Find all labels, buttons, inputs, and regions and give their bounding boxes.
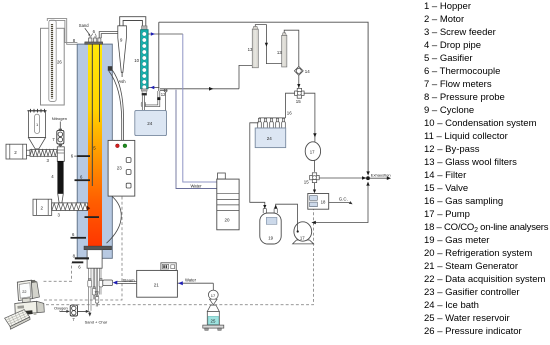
svg-text:14: 14: [305, 69, 310, 74]
wire: cooling water out (lavender) condenser top to refrigerator: [148, 32, 217, 182]
svg-text:21: 21: [154, 282, 160, 287]
drop pipe 4 top connector: [57, 146, 64, 161]
wire: cable controller to lower thermocouple: [107, 196, 122, 243]
computer 22 base unit: [15, 301, 45, 317]
svg-text:13: 13: [248, 47, 253, 52]
motor 2b: [33, 199, 52, 215]
svg-text:16: 16: [287, 110, 292, 115]
svg-text:Sand: Sand: [79, 23, 89, 28]
svg-text:G.C.: G.C.: [339, 196, 348, 201]
thermocouple bar bottom 6: [72, 261, 83, 269]
gasifier 5 wall: [77, 44, 112, 258]
wire: gas line condenser to filters: [160, 65, 252, 90]
svg-text:Water: Water: [191, 184, 203, 189]
wire: nitrogen line to flow meter: [59, 122, 61, 130]
wire: sampling to gas meter: [250, 123, 267, 209]
svg-text:3: 3: [58, 212, 61, 217]
svg-text:Oxygen: Oxygen: [54, 306, 68, 311]
svg-text:15: 15: [304, 180, 309, 185]
wire: cooling water return line: [176, 90, 217, 189]
node: label 6 top thermocouples: [91, 29, 97, 37]
grate at gasifier bottom: [84, 246, 112, 250]
dashed data line: pressure probe to computer: [44, 263, 72, 281]
wire: by-pass down arrow into junction: [366, 171, 369, 175]
svg-text:17: 17: [300, 236, 305, 241]
thermocouple bar y156: [71, 154, 90, 159]
screw feeder 3b: [52, 203, 91, 218]
wire: water line into steam generator: [177, 278, 213, 291]
svg-text:Sand + Char: Sand + Char: [85, 319, 108, 324]
flow meter 7b oxygen: [70, 305, 77, 322]
thermocouple bar y238: [71, 232, 87, 239]
bottom tubes under plenum: [89, 268, 101, 311]
svg-text:6: 6: [93, 29, 96, 34]
svg-text:25: 25: [211, 319, 216, 324]
computer 22 monitor: [17, 280, 39, 303]
dashed data line: analysers to computer: [46, 209, 313, 305]
svg-text:19: 19: [268, 235, 273, 240]
svg-text:Nitrogen: Nitrogen: [52, 116, 67, 121]
svg-text:20: 20: [225, 218, 231, 223]
svg-text:Water: Water: [185, 278, 197, 283]
analyser 18: [308, 194, 329, 210]
svg-text:7: 7: [72, 317, 75, 322]
cyclone 9: [118, 26, 127, 84]
wire: filter2 top to filter 14: [284, 30, 299, 66]
gas meter 19: [260, 204, 298, 244]
wire: pressure tube from indicator to gasifier port 8: [47, 19, 77, 45]
thermocouple rod short: [99, 44, 100, 122]
svg-text:17: 17: [310, 150, 315, 155]
svg-text:7/3: 7/3: [94, 291, 99, 295]
svg-text:24: 24: [267, 136, 273, 141]
wire: cyclone top to condenser: [120, 17, 146, 29]
svg-text:24: 24: [147, 121, 153, 126]
thermocouple rod long: [92, 44, 93, 186]
wire: cable from gasifier to controller: [109, 71, 122, 140]
ice bath 24 left: [135, 110, 167, 135]
valve 15a: [295, 88, 305, 104]
node: exhaustion junction: [366, 176, 370, 180]
liquid collector 11 fittings under condenser: [141, 89, 147, 111]
G.C. arrow: [329, 196, 353, 204]
svg-text:22: 22: [22, 290, 26, 294]
svg-text:7: 7: [52, 137, 55, 142]
motor 2a: [6, 144, 30, 159]
wire: gasifier outlet to cyclone: [99, 32, 118, 38]
wire: valve 15b to exhaustion junction: [319, 176, 366, 180]
svg-text:13: 13: [277, 50, 282, 55]
wire: valve 15a to gas sampling manifold: [286, 93, 295, 118]
filter 14: [294, 67, 310, 76]
drop pipe 4: [51, 161, 63, 203]
thermocouple bar y217: [85, 216, 100, 218]
pump 17 reservoir: [208, 290, 218, 299]
svg-text:10: 10: [134, 58, 139, 63]
pressure indicator 26: [41, 20, 65, 105]
svg-text:17: 17: [211, 293, 216, 298]
sand+char outlet arrow: [85, 311, 108, 324]
node: fitting 12: [161, 89, 167, 97]
wire: condenser side arm with blue arrow: [148, 86, 159, 89]
svg-text:18: 18: [321, 200, 326, 205]
screw feeder 3a: [30, 150, 59, 163]
wire: steam line to gasifier: [113, 278, 137, 285]
svg-text:Steam: Steam: [123, 278, 136, 283]
computer 22 keyboard: [5, 310, 31, 330]
by-pass drain valve (black): [145, 91, 161, 107]
wire: filter1 top to filter2 bottom: [255, 25, 281, 64]
pump 17a circle: [304, 93, 321, 172]
flow meter 7a: [52, 129, 64, 146]
wire: oxygen line to bottom tube: [78, 310, 90, 313]
glass wool filter 13 column 1: [248, 26, 259, 67]
node: cable nub on gasifier wall: [108, 66, 113, 71]
by-pass 12 riser: [158, 22, 160, 91]
svg-text:6: 6: [71, 154, 74, 159]
valve 15b: [304, 173, 319, 185]
oxygen label + arrow: [54, 306, 70, 313]
hopper 1: [27, 109, 46, 149]
gasifier 5 core: [88, 44, 102, 246]
glass wool filter 13 column 2: [277, 33, 287, 67]
refrigeration system 20: [217, 173, 239, 230]
wire: drain into ice bath right: [165, 92, 167, 110]
wire: filter 14 to valve 15a: [297, 75, 300, 88]
wire: valve 15b to analyser 18: [313, 183, 316, 194]
svg-text:3: 3: [47, 158, 50, 163]
pressure probe 8 bottom bar: [73, 254, 89, 260]
wire: pump 17b to junction: [311, 182, 369, 225]
svg-text:6: 6: [72, 232, 75, 237]
wire: by-pass top line to exhaustion: [159, 22, 368, 171]
steam connector stub: [103, 280, 113, 286]
pump 17b circle with base: [293, 222, 314, 244]
plenum below grate: [87, 250, 102, 269]
exhaustion arrow: [370, 173, 391, 180]
top ports on plate: [89, 36, 101, 42]
ice bath 24 right: [255, 128, 286, 148]
water reservoir 25: [203, 299, 224, 330]
thermocouple bar y180: [75, 174, 91, 181]
svg-text:6: 6: [78, 265, 81, 270]
dashed data line: controller to computer: [44, 196, 122, 300]
controller 23: [108, 140, 135, 196]
gas sampling 16 ports: [258, 118, 286, 128]
svg-text:15: 15: [296, 99, 301, 104]
steam generator 21: [137, 263, 178, 297]
tube fittings: [88, 279, 103, 303]
svg-text:26: 26: [57, 59, 62, 64]
sand label + arrow: [79, 23, 91, 36]
gasifier top plate: [85, 42, 103, 44]
condensation system 10: [134, 26, 148, 90]
svg-text:4: 4: [51, 174, 54, 179]
svg-text:23: 23: [117, 165, 123, 170]
svg-text:Ash: Ash: [118, 79, 126, 84]
